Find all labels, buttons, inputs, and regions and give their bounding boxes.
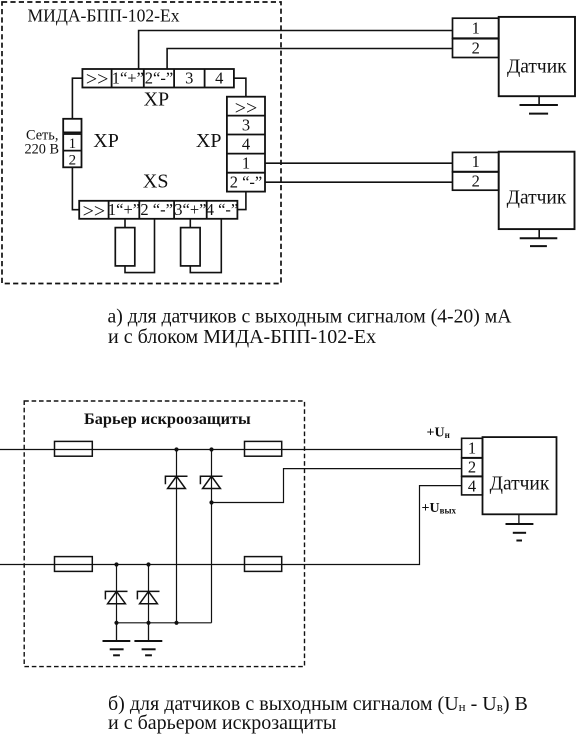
svg-text:+Uн: +Uн	[427, 426, 450, 441]
svg-text:2: 2	[472, 39, 480, 58]
svg-text:и с блоком МИДА-БПП-102-Ех: и с блоком МИДА-БПП-102-Ех	[108, 326, 376, 348]
svg-text:Датчик: Датчик	[507, 188, 567, 209]
svg-text:ХР: ХР	[93, 130, 119, 152]
svg-text:+Uвых: +Uвых	[422, 501, 457, 516]
svg-text:ХР: ХР	[196, 130, 222, 152]
svg-text:1: 1	[242, 154, 250, 173]
svg-text:МИДА-БПП-102-Ех: МИДА-БПП-102-Ех	[28, 6, 180, 26]
svg-text:Датчик: Датчик	[490, 473, 550, 494]
svg-text:>>: >>	[86, 68, 109, 90]
svg-text:4: 4	[242, 135, 250, 154]
svg-text:Барьер искроозащиты: Барьер искроозащиты	[84, 409, 251, 428]
svg-text:2“-”: 2“-”	[145, 69, 173, 88]
svg-text:4 “-”: 4 “-”	[206, 200, 239, 219]
svg-text:1: 1	[472, 152, 480, 171]
svg-text:1: 1	[472, 19, 480, 38]
svg-text:3“+”: 3“+”	[174, 200, 206, 219]
svg-text:2 “-”: 2 “-”	[140, 200, 173, 219]
svg-text:3: 3	[185, 69, 193, 88]
svg-text:Датчик: Датчик	[507, 56, 567, 77]
svg-text:ХS: ХS	[143, 171, 169, 193]
svg-text:2: 2	[69, 153, 77, 169]
svg-text:2: 2	[472, 172, 480, 191]
svg-text:1: 1	[468, 439, 476, 458]
svg-text:4: 4	[468, 476, 476, 495]
svg-text:а) для датчиков с выходным сиг: а) для датчиков с выходным сигналом (4-2…	[108, 306, 513, 328]
svg-text:2: 2	[468, 458, 476, 477]
svg-text:1“+”: 1“+”	[108, 200, 140, 219]
svg-text:2 “-”: 2 “-”	[230, 173, 263, 192]
svg-text:220 В: 220 В	[25, 142, 60, 158]
svg-text:>>: >>	[83, 200, 106, 222]
svg-text:1: 1	[69, 136, 77, 152]
svg-text:3: 3	[242, 116, 250, 135]
svg-text:ХР: ХР	[144, 89, 170, 111]
svg-text:1“+”: 1“+”	[112, 69, 144, 88]
svg-text:и с барьером искрозащиты: и с барьером искрозащиты	[108, 712, 336, 734]
svg-text:4: 4	[215, 69, 223, 88]
